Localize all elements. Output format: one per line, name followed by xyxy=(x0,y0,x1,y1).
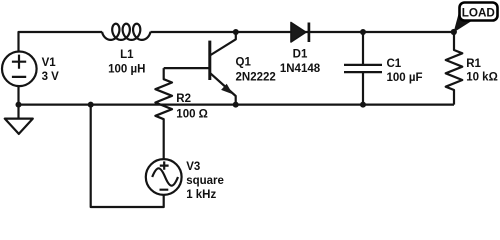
load flag box xyxy=(460,3,498,21)
node emitter xyxy=(233,102,239,108)
source V3 xyxy=(146,159,182,195)
wire V3 return loop xyxy=(91,105,164,207)
svg-text:1 kHz: 1 kHz xyxy=(186,189,216,201)
node dots xyxy=(16,29,457,108)
wire top from L1 to load node xyxy=(151,31,454,33)
svg-text:10 kΩ: 10 kΩ xyxy=(466,71,498,83)
voltage source V1 xyxy=(2,52,37,87)
transistor Q1 xyxy=(208,41,211,80)
node C1 top xyxy=(360,29,366,35)
inductor L1 xyxy=(102,24,151,40)
svg-text:V3: V3 xyxy=(186,161,200,173)
svg-text:square: square xyxy=(186,175,224,187)
svg-text:C1: C1 xyxy=(387,58,402,70)
svg-text:LOAD: LOAD xyxy=(462,6,495,19)
node LOAD xyxy=(451,29,457,35)
node V3 return xyxy=(88,102,94,108)
svg-text:1N4148: 1N4148 xyxy=(280,63,321,75)
ground xyxy=(17,105,19,119)
svg-text:L1: L1 xyxy=(120,49,134,61)
svg-text:100 µF: 100 µF xyxy=(387,72,423,84)
svg-text:V1: V1 xyxy=(42,57,57,69)
svg-text:D1: D1 xyxy=(293,48,308,60)
node C1 bottom xyxy=(360,102,366,108)
diode D1 xyxy=(291,23,306,43)
load flag pointer xyxy=(454,14,473,33)
svg-text:100 Ω: 100 Ω xyxy=(176,108,208,120)
svg-text:R2: R2 xyxy=(176,93,191,105)
svg-text:2N2222: 2N2222 xyxy=(236,71,276,83)
wire bottom rail xyxy=(19,103,455,105)
resistor R1 xyxy=(446,32,463,105)
svg-text:R1: R1 xyxy=(466,58,481,70)
node ground xyxy=(16,102,22,108)
svg-text:3 V: 3 V xyxy=(42,71,60,83)
wire top left from V1 to L1 xyxy=(19,32,103,105)
wire Q1 base xyxy=(164,67,209,69)
svg-text:100 µH: 100 µH xyxy=(108,63,145,75)
resistor R2 xyxy=(155,68,172,159)
capacitor C1 xyxy=(362,32,364,64)
svg-text:Q1: Q1 xyxy=(236,56,252,68)
node collector-top xyxy=(233,29,239,35)
